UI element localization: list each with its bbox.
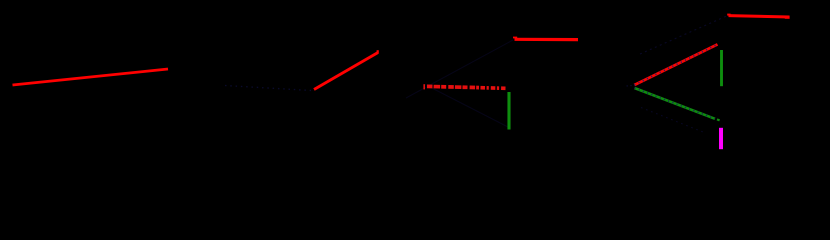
trendline L2 (red diagonal, middle) [314, 53, 378, 90]
red dashed label T1 part 1 [427, 86, 479, 87]
navy guide C (to left end of L5) [640, 15, 729, 54]
green diagonal G2 [635, 88, 716, 119]
navy guide D (parallel below G2) [641, 108, 703, 133]
horizontal red line L3 [515, 38, 579, 41]
magenta vertical M1 [719, 128, 723, 149]
tip nub of L2 [377, 50, 379, 53]
dotted navy guide D1 [225, 86, 311, 91]
trendline L1 (red, lower-left) [13, 69, 169, 85]
navy guide A (rising to right) [406, 40, 513, 98]
arrow tick of L5 [727, 14, 730, 16]
navy guide B (falling to right) [425, 85, 508, 128]
navy specks on L4 [634, 44, 717, 85]
horizontal red line L5 (top right) [729, 16, 790, 17]
tail block of L5 [785, 16, 790, 19]
arrow tick of L3 [513, 37, 517, 39]
tail dash of G2 [717, 119, 720, 120]
red dashed label T1 part 2 [481, 86, 506, 90]
navy stub left of vertex [627, 84, 635, 87]
green vertical G1 [507, 92, 510, 130]
trendline L4 (red diagonal of triangle) [634, 44, 717, 85]
navy specks on G2 [635, 88, 716, 119]
green vertical G3 [720, 50, 723, 86]
red dashed label tick [423, 84, 425, 89]
